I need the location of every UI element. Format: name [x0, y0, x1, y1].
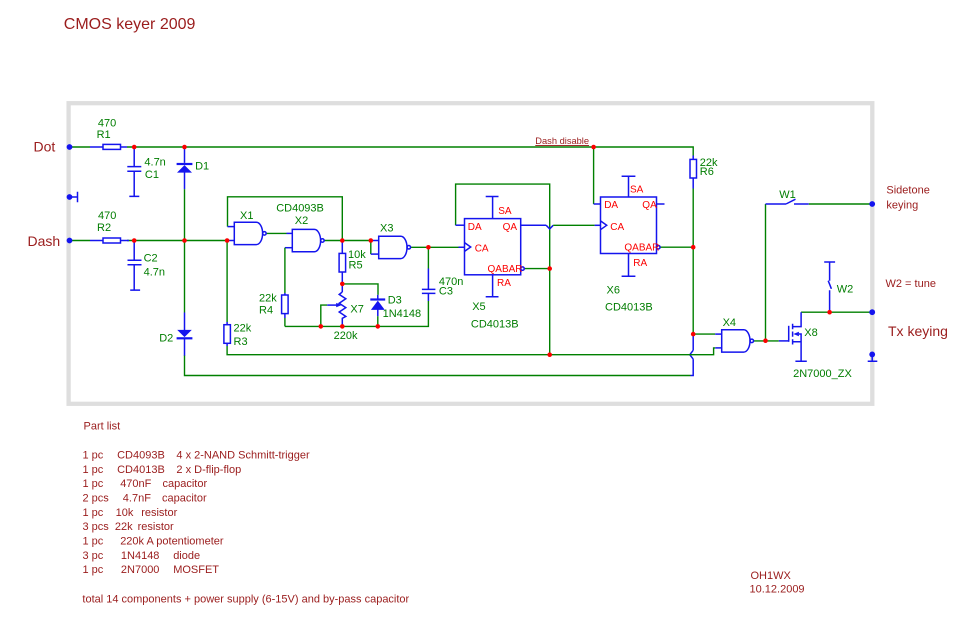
- svg-text:SA: SA: [498, 206, 512, 217]
- wire X3 input stubs: [371, 241, 379, 255]
- wire X5 QABAR to feedback vertical: [524, 268, 550, 270]
- svg-text:total 14 components + power su: total 14 components + power supply (6-15…: [82, 594, 409, 606]
- svg-text:X7: X7: [350, 304, 363, 316]
- svg-text:10.12.2009: 10.12.2009: [750, 584, 805, 596]
- part list total line: [82, 594, 409, 606]
- switch W2: [824, 262, 835, 312]
- junction R6 bottom X6 QABAR: [691, 245, 696, 250]
- svg-text:W2: W2: [837, 284, 854, 296]
- value label W2: [837, 284, 854, 296]
- value label W1: [779, 189, 796, 201]
- junction C2 on dash net: [132, 238, 137, 243]
- svg-text:R3: R3: [234, 336, 248, 348]
- value label X8 2N7000_ZX: [793, 327, 852, 380]
- flip-flop X6: [601, 176, 661, 276]
- svg-text:RA: RA: [633, 258, 647, 269]
- value label 22k R3: [234, 322, 252, 347]
- node Dash disable: [535, 136, 589, 146]
- svg-text:DA: DA: [468, 222, 482, 233]
- svg-text:470: 470: [98, 210, 116, 222]
- wire dash disable to X6 DA: [594, 147, 601, 204]
- junction X2 output R5 feedback: [340, 238, 345, 243]
- wire R5 leads: [341, 242, 343, 284]
- svg-text:X4: X4: [723, 317, 736, 329]
- junction X5 QABAR feedback: [547, 266, 552, 271]
- wire X5 QABAR feedback to DA: [456, 184, 550, 355]
- value label CD4093B: [276, 202, 324, 214]
- svg-text:3 pcs22kresistor: 3 pcs22kresistor: [83, 521, 174, 533]
- svg-text:Tx keying: Tx keying: [888, 323, 948, 339]
- terminal Dash input: [67, 238, 73, 244]
- svg-text:R6: R6: [700, 166, 714, 178]
- svg-text:Dash disable: Dash disable: [535, 136, 589, 146]
- svg-text:X3: X3: [380, 223, 393, 235]
- nand gate X1: [234, 222, 266, 244]
- wire X3 output to C3 and X5 CA: [410, 247, 464, 289]
- svg-text:QA: QA: [642, 200, 657, 211]
- value label X5 CD4013B: [471, 301, 519, 331]
- value label 470 R2: [97, 210, 116, 234]
- value label 4.7n C1: [144, 156, 165, 181]
- svg-text:22k: 22k: [234, 322, 252, 334]
- junction D3 on RC net: [376, 324, 381, 329]
- svg-text:CA: CA: [610, 222, 624, 233]
- svg-text:22k: 22k: [259, 292, 277, 304]
- svg-text:X2: X2: [295, 215, 308, 227]
- node Tx keying: [888, 323, 948, 339]
- wire X2 output to X3 input: [324, 240, 371, 242]
- wire bottom rail from D2: [185, 355, 691, 375]
- svg-text:2N7000_ZX: 2N7000_ZX: [793, 368, 852, 380]
- terminal Tx keying: [869, 309, 875, 315]
- junction X5 QABAR on R3 rail: [547, 352, 552, 357]
- value label X6 CD4013B: [605, 285, 653, 314]
- svg-text:R1: R1: [97, 129, 111, 141]
- resistor R6: [690, 159, 697, 178]
- wire W1 vertical to X4 output: [765, 204, 767, 341]
- resistor R5: [339, 253, 346, 272]
- junction X3 output C3: [426, 245, 431, 250]
- junction pot wiper on RC net: [319, 324, 324, 329]
- junction C1 on dot net: [132, 145, 137, 150]
- terminal Tx keying return: [869, 352, 875, 358]
- wire R6 net vertical to X4: [692, 247, 694, 334]
- svg-text:Dot: Dot: [34, 138, 56, 154]
- svg-text:CA: CA: [475, 243, 489, 254]
- resistor R3: [224, 325, 231, 344]
- wire R6 top lead: [692, 156, 694, 160]
- svg-text:CD4013B: CD4013B: [471, 319, 519, 331]
- diode D2: [177, 313, 193, 356]
- svg-text:X6: X6: [607, 285, 620, 297]
- svg-text:X1: X1: [240, 210, 253, 222]
- svg-text:470: 470: [98, 117, 116, 129]
- value label 10k R5: [348, 249, 366, 271]
- value label 470 R1: [97, 117, 117, 141]
- svg-text:QABAR: QABAR: [624, 242, 659, 253]
- mosfet X8: [789, 312, 807, 361]
- wire X2 output feedback to X1 input: [228, 197, 343, 241]
- resistor R4: [282, 295, 289, 326]
- svg-text:D2: D2: [159, 332, 173, 344]
- wire R3 leads and bottom rail to X4 lower input: [227, 241, 722, 355]
- svg-text:CD4013B: CD4013B: [605, 302, 653, 314]
- node Dot: [34, 138, 56, 154]
- value label D3 1N4148: [383, 295, 422, 320]
- svg-text:1 pc2N7000MOSFET: 1 pc2N7000MOSFET: [83, 564, 220, 576]
- junction X4 top input: [691, 332, 696, 337]
- svg-text:1 pc10kresistor: 1 pc10kresistor: [83, 507, 178, 519]
- svg-text:CMOS keyer 2009: CMOS keyer 2009: [64, 16, 196, 33]
- junction pot bottom on RC net: [340, 324, 345, 329]
- svg-text:D1: D1: [195, 160, 209, 172]
- svg-text:Sidetone: Sidetone: [886, 184, 929, 196]
- capacitor C3: [422, 289, 436, 293]
- svg-text:D3: D3: [388, 295, 402, 307]
- wire dot net horizontal: [70, 147, 694, 156]
- wire X4 top input: [693, 333, 722, 335]
- wire dash net horizontal: [70, 240, 235, 242]
- svg-text:Dash: Dash: [28, 233, 61, 249]
- svg-text:R4: R4: [259, 305, 273, 317]
- svg-text:C2: C2: [144, 253, 158, 265]
- svg-text:RA: RA: [497, 278, 511, 289]
- svg-text:W2 = tune: W2 = tune: [886, 278, 936, 290]
- junction X3 inputs tied: [369, 238, 374, 243]
- svg-text:W1: W1: [779, 189, 796, 201]
- svg-text:OH1WX: OH1WX: [751, 570, 792, 582]
- flip-flop X5: [465, 197, 525, 297]
- svg-text:X5: X5: [472, 301, 485, 313]
- value label X2: [295, 215, 308, 227]
- wire X6 QABAR to junction: [660, 246, 693, 248]
- wire X4 output to X8 gate: [754, 340, 789, 342]
- wire X2 bottom input to R4: [285, 248, 292, 295]
- svg-text:DA: DA: [604, 200, 618, 211]
- nand gate X4: [722, 330, 754, 352]
- svg-text:4.7n: 4.7n: [144, 156, 165, 168]
- svg-text:SA: SA: [630, 184, 644, 195]
- paddle common connector: [70, 192, 78, 203]
- svg-text:QABAR: QABAR: [488, 264, 523, 275]
- capacitor C2: [128, 242, 142, 290]
- svg-text:1 pcCD4013B2 x D-flip-flop: 1 pcCD4013B2 x D-flip-flop: [83, 464, 242, 476]
- svg-text:C3: C3: [439, 286, 453, 298]
- junction D1-D2 column on dash net: [182, 238, 187, 243]
- svg-text:3 pc1N4148diode: 3 pc1N4148diode: [83, 550, 201, 562]
- wire R5 bottom junction to D3 top: [342, 284, 378, 295]
- svg-text:X8: X8: [804, 327, 817, 339]
- wire X6 QA stub: [657, 203, 665, 205]
- svg-text:CD4093B: CD4093B: [276, 202, 324, 214]
- wire pot X7 top lead: [341, 284, 343, 292]
- svg-text:1 pc470nFcapacitor: 1 pc470nFcapacitor: [83, 478, 208, 490]
- wire pot wiper to bottom net: [321, 305, 327, 326]
- junction R5 bottom pot top: [340, 282, 345, 287]
- wire bottom RC net horizontal: [285, 294, 429, 327]
- junction dash disable to X6 DA: [591, 145, 596, 150]
- Tx keying return terminal stub: [868, 354, 878, 361]
- value label D2: [159, 332, 173, 344]
- junction R3 on dash net at X1 input: [225, 238, 230, 243]
- wire X8 drain to Tx keying terminal: [801, 311, 872, 313]
- junction W2 on Tx net: [827, 310, 832, 315]
- value label 470n C3: [439, 276, 463, 298]
- svg-text:4.7n: 4.7n: [144, 267, 165, 279]
- potentiometer X7: [327, 292, 346, 326]
- svg-text:R2: R2: [97, 222, 111, 234]
- nand gate X2: [292, 229, 324, 251]
- svg-text:220k: 220k: [334, 330, 358, 342]
- svg-text:C1: C1: [145, 169, 159, 181]
- svg-text:Part list: Part list: [84, 421, 121, 433]
- svg-text:1 pc220k A potentiometer: 1 pc220k A potentiometer: [83, 536, 224, 548]
- value label X4: [723, 317, 736, 329]
- wire X1 output to X2 input: [266, 232, 292, 234]
- svg-text:R5: R5: [349, 260, 363, 272]
- terminal Dot input: [67, 144, 73, 150]
- resistor R2: [90, 238, 129, 243]
- terminal paddle common: [67, 194, 73, 200]
- svg-text:keying: keying: [886, 200, 918, 212]
- value label D1: [195, 160, 209, 172]
- value label 22k R4: [259, 292, 277, 316]
- wire D1 to dash and D2: [184, 189, 186, 312]
- svg-text:1 pcCD4093B4 x 2-NAND Schmitt-: 1 pcCD4093B4 x 2-NAND Schmitt-trigger: [83, 449, 310, 461]
- part list heading: [84, 421, 121, 433]
- pin labels X5: [468, 206, 523, 289]
- svg-text:2 pcs4.7nFcapacitor: 2 pcs4.7nFcapacitor: [83, 493, 207, 505]
- capacitor C1: [127, 149, 141, 197]
- svg-text:QA: QA: [503, 222, 518, 233]
- signature OH1WX date: [750, 570, 805, 596]
- node Dash: [28, 233, 61, 249]
- wire R6 bottom lead to QABAR junction: [692, 178, 694, 247]
- value label C2 4.7n: [144, 253, 165, 279]
- svg-text:1N4148: 1N4148: [383, 308, 422, 320]
- part list rows: [83, 449, 310, 576]
- junction X4 output W1 branch: [763, 338, 768, 343]
- value label X7 220k: [334, 304, 364, 342]
- value label 22k R6: [700, 157, 718, 178]
- border frame: [69, 103, 873, 404]
- pin labels X6: [604, 184, 659, 268]
- node W2 = tune: [886, 278, 936, 290]
- switch W1: [766, 199, 873, 204]
- diode D1: [177, 148, 193, 189]
- diode D3: [370, 295, 385, 327]
- title CMOS keyer 2009: [64, 16, 196, 33]
- wire X4 junction down to bottom rail with hop: [690, 334, 693, 375]
- nand gate X3: [379, 236, 411, 258]
- junction D1 on dot net: [182, 145, 187, 150]
- node Sidetone keying: [886, 184, 929, 211]
- value label X3: [380, 223, 393, 235]
- value label X1: [240, 210, 253, 222]
- resistor R1: [90, 144, 127, 149]
- terminal Sidetone keying: [869, 201, 875, 207]
- wire X5 QA to X6 CA with hop: [521, 225, 601, 229]
